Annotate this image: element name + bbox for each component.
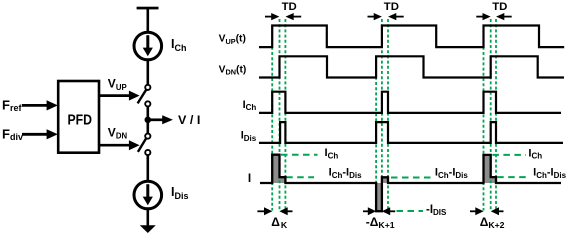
marker: V_UP rise edge cycle K+1	[381, 19, 383, 211]
svg-text:ΔK+2: ΔK+2	[480, 215, 505, 230]
phase error marker -Delta_K+1	[363, 207, 395, 230]
control arrow V_DN from PFD to S2	[99, 140, 140, 150]
wire: rail to current source I_Ch	[147, 8, 150, 33]
phase error marker Delta_K+2	[470, 207, 505, 230]
level line I_Ch-I_Dis (cycle K+1)	[391, 177, 433, 179]
svg-text:ICh-IDis: ICh-IDis	[533, 167, 567, 180]
svg-text:ICh: ICh	[243, 99, 257, 112]
svg-text:IDis: IDis	[171, 185, 189, 201]
svg-text:-IDIS: -IDIS	[426, 204, 447, 217]
svg-text:ICh-IDis: ICh-IDis	[329, 167, 363, 180]
control arrow V_UP from PFD to S1	[99, 91, 140, 101]
output arrow to V/I	[148, 115, 173, 124]
svg-text:ΔK: ΔK	[271, 215, 288, 230]
svg-text:ICh: ICh	[325, 147, 339, 160]
marker: V_UP rise edge cycle K	[271, 26, 273, 211]
svg-text:V / I: V / I	[178, 113, 200, 127]
gray fill: I pulse cycle K+2	[484, 155, 497, 183]
svg-text:IDis: IDis	[241, 130, 257, 143]
node V/I junction dot	[145, 117, 152, 124]
svg-text:ICh: ICh	[528, 147, 542, 160]
switch S2 (DN)	[138, 134, 151, 156]
marker: reset edge cycle K	[284, 19, 286, 211]
TD marker cycle K+1	[368, 1, 404, 20]
wire: I_Ch to switch S1	[147, 60, 150, 85]
wire: node to switch S2	[147, 120, 150, 134]
waveform I_Dis trace	[259, 122, 563, 143]
svg-text:VUP(t): VUP(t)	[219, 34, 246, 46]
svg-text:Fdiv: Fdiv	[2, 126, 23, 142]
svg-text:VUP: VUP	[108, 77, 127, 92]
input F_div arrow	[22, 129, 58, 139]
current source I_Dis	[134, 181, 162, 209]
svg-text:Fref: Fref	[2, 97, 22, 113]
PFD block U1	[58, 81, 99, 153]
switch S1 (UP)	[138, 85, 151, 107]
current source I_Ch	[134, 32, 162, 60]
TD marker cycle K	[265, 1, 301, 20]
power rail (top bar)	[137, 7, 159, 10]
wire: S2 to current source I_Dis	[147, 155, 150, 182]
gray fill: I pulse cycle K+1 (negative)	[376, 177, 388, 211]
svg-text:ICh: ICh	[171, 37, 186, 53]
level line I_Ch-I_Dis (cycle K)	[286, 176, 314, 178]
level line I_Ch (cycle K)	[281, 154, 318, 156]
waveform V_DN(t) trace	[259, 56, 564, 77]
ground	[140, 225, 156, 233]
svg-text:I: I	[248, 171, 251, 185]
wire: I_Dis to ground	[147, 209, 150, 228]
svg-text:TD: TD	[492, 1, 507, 13]
marker: reset edge cycle K+2	[495, 19, 497, 211]
-I_DIS pointer dashes (cycle K+1)	[397, 210, 424, 212]
svg-text:TD: TD	[384, 1, 399, 13]
marker: reset edge cycle K+1	[387, 19, 389, 211]
marker: V_DN rise edge cycle K+2	[490, 19, 492, 211]
waveform I_Ch trace	[259, 92, 561, 113]
waveform V_UP(t) trace	[259, 26, 564, 48]
waveform I trace	[260, 155, 561, 212]
level line I_Ch-I_Dis (cycle K+2)	[497, 176, 526, 178]
svg-text:ICh-IDis: ICh-IDis	[435, 167, 469, 180]
wire: S1 to output node	[147, 107, 150, 120]
svg-text:TD: TD	[282, 1, 297, 13]
svg-text:VDN(t): VDN(t)	[219, 64, 247, 76]
input F_ref arrow	[22, 100, 58, 110]
level line I_Ch (cycle K+2)	[492, 154, 526, 156]
gray fill: I pulse cycle K	[272, 155, 285, 183]
svg-text:VDN: VDN	[108, 125, 128, 140]
marker: V_DN rise edge cycle K	[279, 19, 281, 211]
marker: V_UP rise edge cycle K+2	[483, 26, 485, 211]
svg-text:PFD: PFD	[68, 112, 93, 128]
marker: V_DN rise edge cycle K+1	[375, 56, 377, 211]
phase error marker Delta_K	[257, 207, 292, 230]
svg-text:-ΔK+1: -ΔK+1	[366, 215, 395, 230]
TD marker cycle K+2	[476, 1, 511, 20]
